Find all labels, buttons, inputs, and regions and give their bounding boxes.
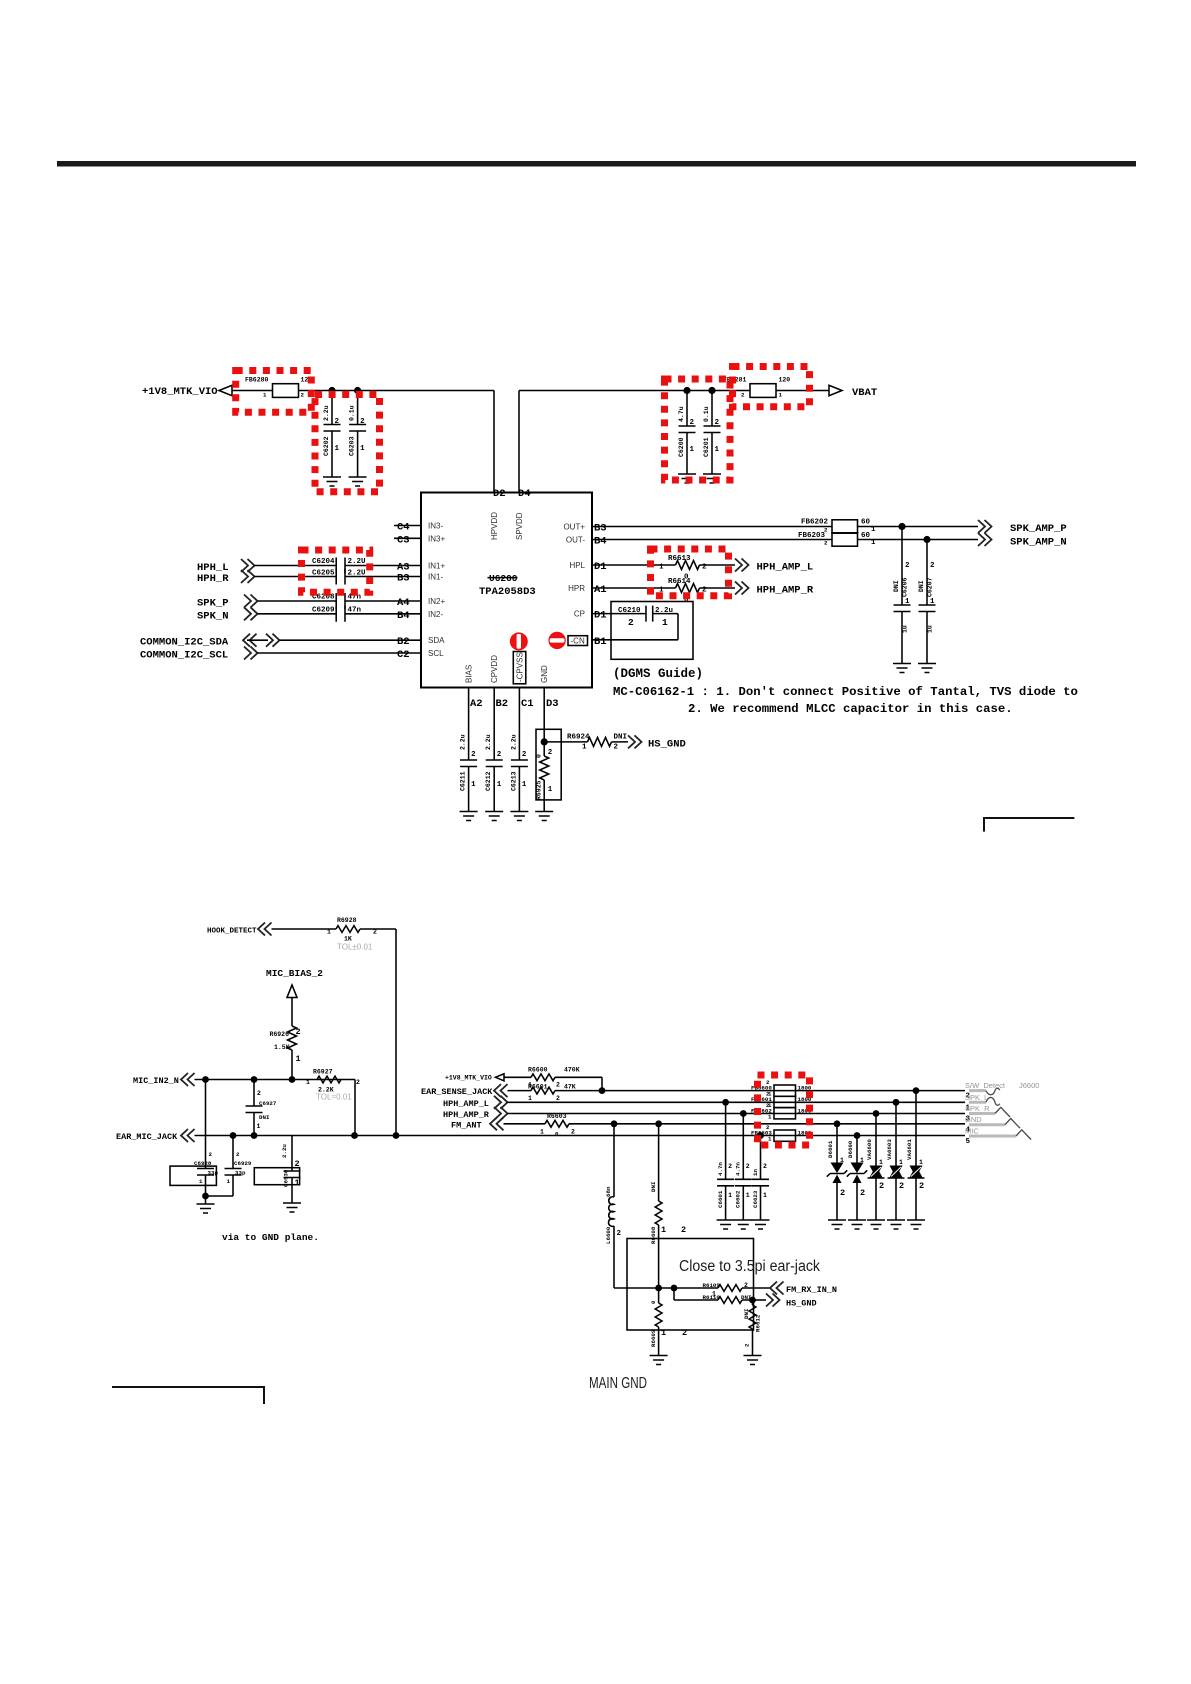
net COMMON_I2C_SDA bidirectional — [140, 634, 421, 649]
svg-text:C6929: C6929 — [234, 1160, 252, 1167]
svg-text:1: 1 — [528, 1095, 532, 1102]
ferrite bead FB6603 — [751, 1124, 812, 1143]
net FM_RX_IN_N — [770, 1282, 837, 1296]
svg-text:2: 2 — [744, 1282, 748, 1289]
net +1V8_MTK_VIO bottom port — [445, 1074, 602, 1091]
svg-text:C6207: C6207 — [927, 577, 934, 597]
highlight box C6202 C6203 — [315, 395, 380, 492]
svg-text:HPH_AMP_R: HPH_AMP_R — [443, 1110, 490, 1120]
svg-text:1: 1 — [763, 1192, 767, 1199]
svg-text:2: 2 — [628, 617, 634, 628]
svg-text:1: 1 — [779, 392, 783, 399]
svg-text:1: 1 — [768, 1136, 772, 1143]
net SPK_AMP_N — [978, 533, 1067, 549]
svg-text:C6212: C6212 — [485, 771, 492, 791]
ferrite bead FB6202 — [801, 519, 876, 535]
svg-text:HPH_AMP_R: HPH_AMP_R — [757, 585, 814, 597]
capacitor C6210 flying cap loop — [592, 602, 693, 660]
svg-text:FM_ANT: FM_ANT — [451, 1120, 482, 1130]
svg-text:OUT+: OUT+ — [563, 523, 585, 532]
svg-text:IN2-: IN2- — [428, 610, 443, 619]
capacitor C6623 — [752, 1136, 769, 1221]
svg-text:R6600: R6600 — [528, 1067, 548, 1074]
svg-text:J6600: J6600 — [1019, 1081, 1039, 1090]
resistor R6600 — [528, 1067, 580, 1089]
svg-text:2.2U: 2.2U — [348, 558, 367, 566]
ground — [349, 477, 367, 486]
svg-text:B1: B1 — [594, 636, 607, 648]
svg-text:68n: 68n — [605, 1186, 612, 1197]
pin name OUT+ — [563, 523, 585, 532]
net SPK_AMP_P — [978, 520, 1067, 535]
resistor R6612 DNI — [743, 1300, 762, 1356]
svg-text:A1: A1 — [594, 584, 607, 596]
capacitor C6211 — [460, 688, 478, 812]
svg-text:2: 2 — [209, 1151, 213, 1158]
svg-text:EAR_SENSE_JACK: EAR_SENSE_JACK — [421, 1087, 493, 1097]
TVS diode D6601 — [827, 1124, 847, 1220]
svg-text:SPK_P: SPK_P — [197, 598, 229, 610]
svg-text:D4: D4 — [518, 488, 531, 500]
svg-text:47n: 47n — [348, 606, 362, 614]
svg-text:1: 1 — [227, 1178, 231, 1185]
svg-text:1: 1 — [871, 539, 876, 547]
pin name IN3+ — [428, 534, 445, 543]
svg-text:FB6202: FB6202 — [801, 519, 829, 527]
node junction cap commons — [202, 1193, 209, 1200]
svg-text:2: 2 — [702, 564, 707, 572]
ferrite bead FB6601 — [751, 1091, 812, 1110]
ground — [848, 1220, 866, 1229]
node junctions fm node — [655, 1285, 677, 1292]
ferrite bead FB6280 — [245, 377, 312, 399]
svg-text:MC-C06162-1 : 1. Don't connect: MC-C06162-1 : 1. Don't connect Positive … — [613, 685, 1078, 699]
svg-text:(DGMS Guide): (DGMS Guide) — [613, 667, 703, 681]
svg-text:1: 1 — [919, 1159, 923, 1166]
svg-text:A4: A4 — [397, 597, 410, 609]
svg-text:CP: CP — [574, 610, 585, 619]
pin D3 designator — [546, 698, 559, 710]
svg-text:1: 1 — [930, 598, 935, 606]
svg-text:1.5K: 1.5K — [274, 1044, 290, 1051]
capacitor C6929 — [206, 1136, 252, 1197]
highlight box C6200 C6201 — [665, 379, 731, 480]
svg-text:R6613: R6613 — [668, 555, 691, 563]
svg-text:2: 2 — [715, 419, 720, 427]
svg-text:1: 1 — [746, 1192, 750, 1199]
ground — [907, 1220, 925, 1229]
node junction OUT+ — [898, 523, 905, 530]
pin name IN2+ — [428, 597, 445, 606]
svg-text:-CN: -CN — [571, 636, 585, 645]
svg-text:2: 2 — [571, 1128, 575, 1135]
svg-text:2: 2 — [746, 1163, 750, 1170]
svg-text:HPR: HPR — [568, 584, 585, 593]
svg-text:A2: A2 — [470, 698, 483, 710]
svg-text:2.2u: 2.2u — [281, 1144, 288, 1158]
svg-text:2: 2 — [614, 744, 619, 752]
svg-text:C2: C2 — [397, 649, 410, 661]
varistor VA6600 — [866, 1114, 885, 1221]
resistor R6601 — [528, 1084, 576, 1102]
pin B4 — [397, 610, 410, 622]
title block corner bottom — [112, 1387, 264, 1404]
svg-text:4.7n: 4.7n — [735, 1162, 742, 1176]
svg-text:1: 1 — [905, 598, 910, 606]
svg-text:1: 1 — [327, 929, 331, 936]
svg-text:2. We recommend MLCC capacitor: 2. We recommend MLCC capacitor in this c… — [688, 702, 1013, 716]
svg-text:C6202: C6202 — [323, 436, 330, 456]
ground — [703, 474, 721, 483]
svg-text:1: 1 — [879, 1159, 883, 1166]
svg-text:2: 2 — [296, 1027, 301, 1037]
svg-text:MIC_IN2_N: MIC_IN2_N — [133, 1076, 179, 1086]
ferrite bead FB6602 — [751, 1102, 812, 1121]
pin D4 SPVDD designator — [518, 488, 531, 500]
svg-text:2: 2 — [682, 1328, 687, 1338]
svg-text:R6927: R6927 — [313, 1069, 333, 1076]
power MIC_BIAS_2 — [266, 968, 323, 1080]
svg-text:2: 2 — [471, 751, 476, 759]
svg-text:HPVDD: HPVDD — [490, 512, 499, 540]
net EAR_MIC_JACK — [116, 1129, 965, 1142]
node junctions hph l — [722, 1099, 899, 1106]
svg-text:1: 1 — [582, 744, 587, 752]
wire GND pin to node — [543, 688, 545, 812]
capacitor C6205 — [312, 569, 421, 585]
svg-text:2: 2 — [824, 540, 828, 547]
note DGMS guide — [613, 667, 703, 681]
svg-text:C6206: C6206 — [902, 577, 909, 597]
svg-text:R6601: R6601 — [528, 1084, 548, 1091]
pin C1 designator — [521, 698, 534, 710]
capacitor C6200 — [678, 391, 696, 475]
pin D1 HPL — [594, 561, 607, 573]
pin name HPVDD rotated — [490, 512, 499, 540]
svg-text:COMMON_I2C_SDA: COMMON_I2C_SDA — [140, 637, 229, 649]
svg-text:B4: B4 — [397, 610, 410, 622]
svg-text:2: 2 — [766, 1079, 770, 1086]
svg-text:R6609: R6609 — [650, 1329, 657, 1347]
ground — [893, 664, 911, 673]
svg-text:+1V8_MTK_VIO: +1V8_MTK_VIO — [142, 386, 218, 398]
pin name IN1+ — [428, 562, 445, 571]
capacitor C6204 — [312, 558, 421, 574]
svg-text:B3: B3 — [594, 523, 607, 535]
node junctions fm ant — [611, 1120, 841, 1127]
svg-text:C6203: C6203 — [349, 436, 356, 456]
svg-text:+1V8_MTK_VIO: +1V8_MTK_VIO — [445, 1075, 492, 1082]
svg-text:TOL=0.01: TOL=0.01 — [316, 1093, 352, 1102]
svg-text:SPK_N: SPK_N — [197, 610, 229, 622]
net COMMON_I2C_SCL — [140, 647, 421, 662]
svg-text:IN1-: IN1- — [428, 573, 443, 582]
svg-text:2: 2 — [766, 1124, 770, 1131]
svg-text:R6928: R6928 — [337, 917, 357, 924]
svg-text:DNI: DNI — [614, 734, 628, 742]
svg-text:SPK_AMP_P: SPK_AMP_P — [1010, 523, 1067, 535]
pin C2 — [397, 649, 410, 661]
svg-text:2: 2 — [681, 1225, 686, 1235]
svg-text:1: 1 — [257, 1123, 261, 1130]
capacitor C6928 boxed — [170, 1080, 218, 1205]
svg-text:EAR_MIC_JACK: EAR_MIC_JACK — [116, 1132, 178, 1142]
svg-text:1: 1 — [335, 445, 340, 453]
svg-text:0: 0 — [555, 1130, 559, 1137]
svg-text:1: 1 — [899, 1159, 903, 1166]
ground — [460, 812, 478, 821]
svg-text:C6927: C6927 — [259, 1100, 277, 1107]
ground — [323, 477, 341, 486]
ferrite bead FB6281 — [723, 377, 790, 399]
pin name OUT- — [566, 536, 585, 545]
svg-text:1: 1 — [662, 617, 668, 628]
svg-text:1: 1 — [661, 1225, 666, 1235]
capacitor C6213 — [510, 688, 528, 812]
jack pin 1 SPK_L — [965, 1093, 1000, 1113]
svg-text:2: 2 — [497, 751, 502, 759]
svg-text:1: 1 — [860, 1157, 864, 1164]
resistor R6928 — [327, 917, 377, 952]
svg-text:2: 2 — [860, 1188, 865, 1198]
svg-text:C6210: C6210 — [618, 607, 641, 615]
svg-text:D3: D3 — [546, 698, 559, 710]
svg-text:1: 1 — [715, 446, 720, 454]
net HS_GND bottom — [753, 1294, 817, 1309]
capacitor C6602 — [735, 1114, 752, 1221]
ground — [887, 1220, 905, 1229]
svg-text:B3: B3 — [397, 573, 410, 585]
ground — [650, 1356, 668, 1365]
svg-text:C6602: C6602 — [735, 1190, 742, 1208]
ground — [717, 1220, 735, 1229]
ground — [485, 812, 503, 821]
svg-text:2: 2 — [356, 1079, 360, 1086]
svg-text:1: 1 — [690, 446, 695, 454]
capacitor C6208 — [312, 593, 421, 609]
svg-text:4.7n: 4.7n — [717, 1162, 724, 1176]
svg-text:2: 2 — [744, 1343, 751, 1347]
wire fm to chevron — [659, 1287, 770, 1289]
net HPH_L input — [197, 559, 336, 574]
pin B3 — [397, 573, 410, 585]
pin name IN1- — [428, 573, 443, 582]
svg-text:HPL: HPL — [569, 561, 585, 570]
svg-text:1: 1 — [768, 1113, 772, 1120]
varistor VA6603 — [886, 1102, 905, 1220]
pin C1 CP — [594, 610, 607, 622]
svg-text:D6600: D6600 — [847, 1140, 854, 1158]
svg-text:GND: GND — [540, 665, 549, 683]
svg-text:1: 1 — [360, 445, 365, 453]
svg-text:HPH_AMP_L: HPH_AMP_L — [443, 1099, 489, 1109]
svg-text:2: 2 — [728, 1163, 732, 1170]
jack pin 3 SPK_R — [965, 1104, 1010, 1124]
svg-text:-CPVSS: -CPVSS — [515, 652, 524, 682]
svg-text:1K: 1K — [344, 936, 352, 943]
svg-text:B4: B4 — [594, 536, 607, 548]
svg-text:C4: C4 — [397, 522, 410, 534]
svg-text:GND: GND — [965, 1115, 982, 1124]
TVS diode D6600 — [847, 1136, 867, 1221]
svg-text:IN1+: IN1+ — [428, 562, 445, 571]
svg-text:R6603: R6603 — [547, 1113, 567, 1120]
svg-text:2: 2 — [840, 1188, 845, 1198]
svg-text:C6601: C6601 — [717, 1190, 724, 1208]
net HPH_AMP_R bottom — [443, 1107, 965, 1120]
ground — [918, 664, 936, 673]
svg-text:2: 2 — [556, 1095, 560, 1102]
svg-text:B2: B2 — [496, 698, 509, 710]
highlight box R6613 R6614 — [651, 549, 729, 596]
ferrite bead FB6600 — [751, 1079, 812, 1098]
net HPH_AMP_R — [735, 582, 814, 597]
net SPK_N input — [197, 607, 336, 622]
note MC-C06162-1 line 2 — [688, 702, 1013, 716]
wire VBAT rail — [519, 391, 829, 493]
pin name CPVDD rotated — [490, 655, 499, 683]
highlight box FB6281 — [733, 367, 810, 407]
capacitor C6601 — [717, 1102, 734, 1220]
resistor R6109 — [703, 1282, 749, 1298]
svg-text:OUT-: OUT- — [566, 536, 585, 545]
capacitor C6207 — [918, 540, 936, 664]
svg-text:1: 1 — [728, 1192, 732, 1199]
highlight box FB6280 — [236, 371, 312, 413]
svg-text:MIC_BIAS_2: MIC_BIAS_2 — [266, 968, 323, 979]
svg-text:C6213: C6213 — [510, 771, 517, 791]
svg-text:SPVDD: SPVDD — [515, 512, 524, 540]
svg-text:MIC: MIC — [965, 1126, 979, 1135]
net HPH_AMP_L — [735, 559, 813, 574]
resistor R6608 DNI — [650, 1124, 686, 1288]
svg-text:HS_GND: HS_GND — [648, 738, 686, 750]
svg-text:SPK_L: SPK_L — [965, 1093, 988, 1102]
svg-text:1n: 1n — [752, 1169, 759, 1176]
svg-text:2: 2 — [879, 1181, 884, 1191]
svg-text:C6928: C6928 — [194, 1160, 212, 1167]
svg-text:1800: 1800 — [798, 1085, 812, 1092]
pin B2 designator — [496, 698, 509, 710]
svg-text:MAIN GND: MAIN GND — [589, 1375, 647, 1392]
svg-text:4.7u: 4.7u — [678, 406, 685, 422]
svg-text:33p: 33p — [235, 1170, 246, 1177]
pin name HPR — [568, 584, 585, 593]
svg-text:SCL: SCL — [428, 649, 444, 658]
svg-text:SPK_R: SPK_R — [965, 1104, 990, 1113]
net +1V8_MTK_VIO port — [142, 385, 232, 398]
pin name CP — [574, 610, 585, 619]
net EAR_SENSE_JACK — [421, 1084, 965, 1097]
pin name GND rotated — [540, 665, 549, 683]
svg-text:0.1u: 0.1u — [703, 406, 710, 422]
svg-text:2.2u: 2.2u — [510, 734, 517, 750]
net HPH_AMP_L bottom — [443, 1096, 965, 1109]
svg-text:R6612: R6612 — [755, 1314, 762, 1332]
ground — [734, 1220, 752, 1229]
svg-text:33p: 33p — [208, 1170, 219, 1177]
svg-text:R6924: R6924 — [567, 734, 590, 742]
svg-text:R6608: R6608 — [650, 1226, 657, 1244]
ground — [283, 1203, 301, 1212]
node junctions hph r — [740, 1110, 880, 1117]
resistor R6110 DNI — [674, 1288, 753, 1303]
svg-text:0: 0 — [536, 754, 543, 758]
pin name SCL — [428, 649, 444, 658]
svg-text:FB6203: FB6203 — [798, 532, 826, 540]
svg-text:FM_RX_IN_N: FM_RX_IN_N — [786, 1285, 837, 1295]
svg-text:C6201: C6201 — [703, 437, 710, 457]
svg-text:D6601: D6601 — [827, 1140, 834, 1158]
svg-text:C6211: C6211 — [460, 771, 467, 791]
net FM_ANT — [451, 1117, 965, 1130]
svg-text:2: 2 — [930, 562, 935, 570]
op-amp U6200 TPA2058D3 IC body — [421, 493, 592, 688]
pin D2 HPVDD designator — [493, 488, 506, 500]
node junction hs gnd — [749, 1297, 756, 1304]
pin name IN2- — [428, 610, 443, 619]
connector J6600 ear jack — [1019, 1081, 1039, 1090]
svg-text:IN3-: IN3- — [428, 522, 443, 531]
net HOOK_DETECT — [207, 923, 396, 1136]
net SPK_P input — [197, 595, 336, 610]
ground — [510, 812, 528, 821]
ferrite bead FB6203 — [798, 532, 876, 547]
svg-text:1: 1 — [661, 1328, 666, 1338]
pin name SDA — [428, 636, 445, 645]
note via to GND plane — [222, 1232, 319, 1243]
svg-text:HOOK_DETECT: HOOK_DETECT — [207, 928, 257, 936]
svg-text:60: 60 — [861, 519, 871, 527]
svg-text:S/W_Detect: S/W_Detect — [965, 1081, 1006, 1090]
svg-text:2.2u: 2.2u — [323, 405, 330, 421]
wire HPL — [592, 564, 735, 566]
svg-text:TOL±0.01: TOL±0.01 — [337, 943, 373, 952]
svg-text:D1: D1 — [594, 610, 607, 622]
resistor R6614 — [659, 578, 707, 605]
capacitor C6202 — [323, 391, 341, 478]
node junction GND — [541, 738, 548, 745]
svg-text:1: 1 — [840, 1157, 844, 1164]
svg-text:SDA: SDA — [428, 636, 445, 645]
svg-text:C6200: C6200 — [678, 437, 685, 457]
svg-text:120: 120 — [779, 377, 791, 384]
prohibition icon vertical — [510, 632, 528, 650]
svg-text:DNI: DNI — [893, 580, 900, 592]
svg-text:2: 2 — [236, 1151, 240, 1158]
svg-text:2: 2 — [301, 392, 305, 399]
ground — [535, 812, 553, 821]
svg-text:0: 0 — [650, 1300, 657, 1304]
resistor R6603 — [540, 1113, 575, 1137]
varistor VA6601 — [906, 1091, 925, 1220]
svg-text:U6200: U6200 — [489, 573, 518, 584]
pin B2 — [397, 636, 410, 648]
svg-text:2.2u: 2.2u — [485, 734, 492, 750]
ground — [752, 1220, 770, 1229]
svg-text:1: 1 — [471, 781, 476, 789]
svg-text:DNI: DNI — [650, 1181, 657, 1192]
resistor R6925 boxed — [536, 729, 562, 800]
jack pin 4 GND — [965, 1115, 1020, 1135]
svg-text:C3: C3 — [397, 534, 410, 546]
svg-text:1: 1 — [548, 786, 553, 794]
pin C3 — [394, 534, 421, 546]
highlight box C6204 C6205 — [302, 550, 370, 592]
svg-text:2: 2 — [548, 749, 553, 757]
node junction OUT- — [923, 536, 930, 543]
svg-text:47K: 47K — [564, 1084, 576, 1091]
